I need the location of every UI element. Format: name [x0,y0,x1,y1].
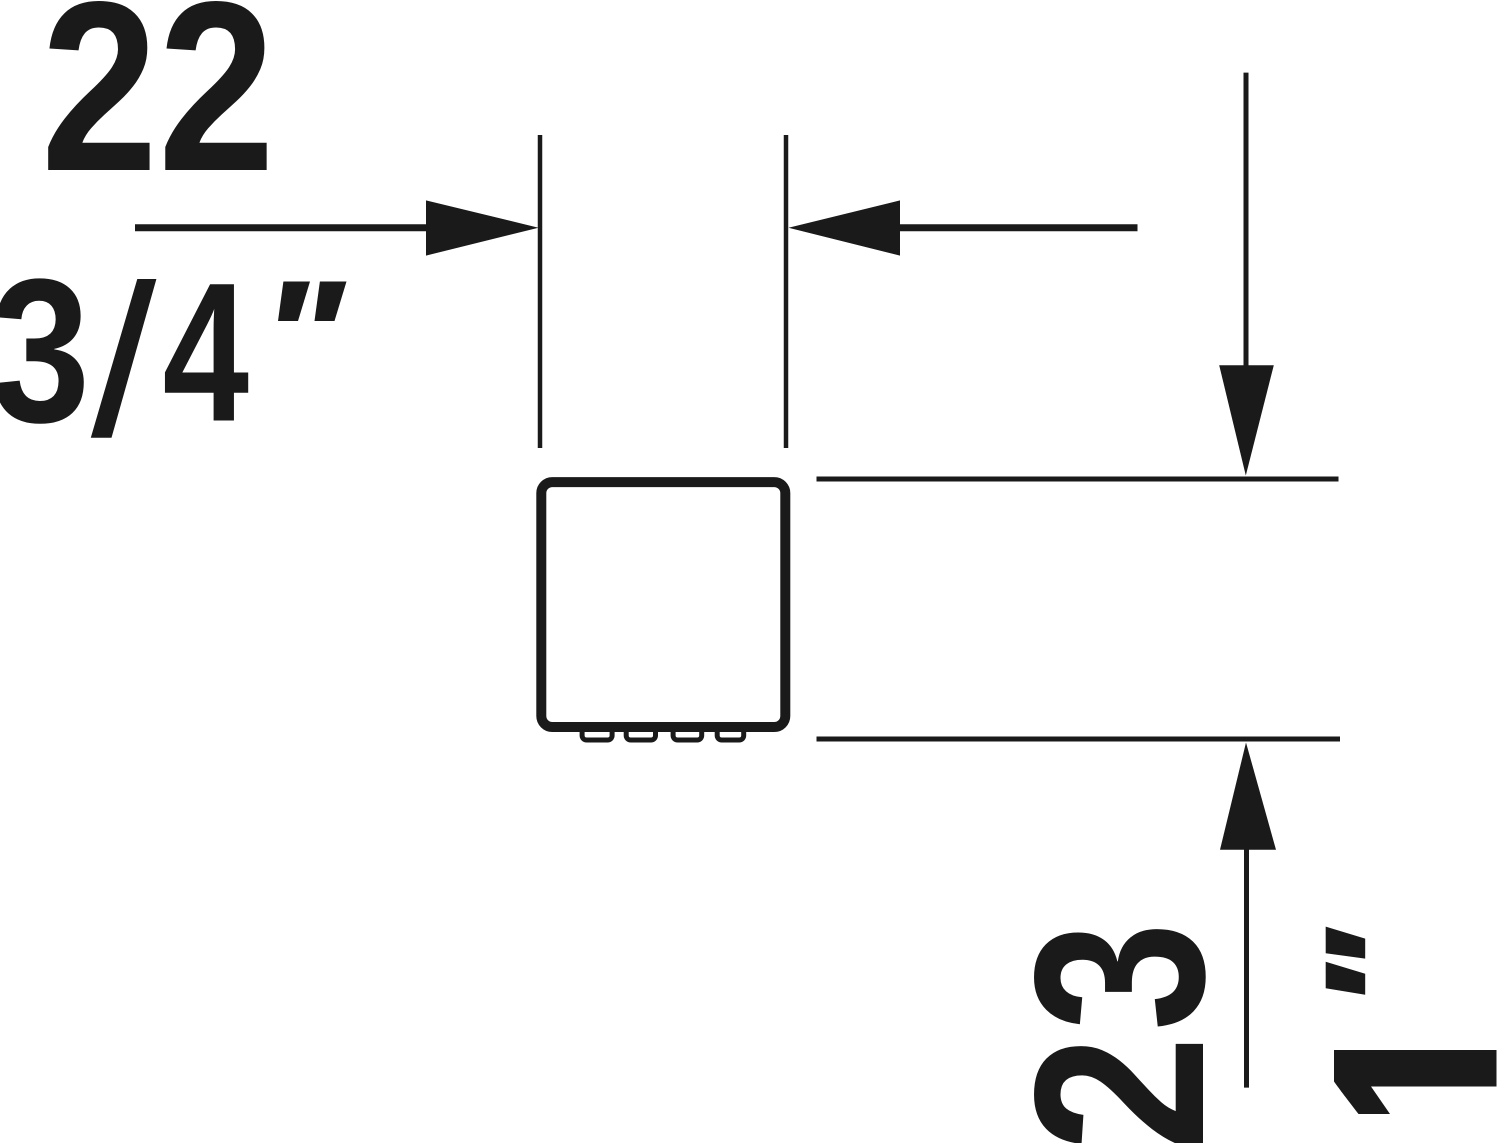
arrowhead down-pointing [1219,365,1274,475]
dimension line right (horizontal, arrow left) [896,224,1138,231]
svg-text:3: 3 [0,236,90,465]
arrowhead up-pointing [1220,743,1276,850]
inch double-prime after 3/4 [278,282,347,322]
svg-text:2: 2 [985,1035,1255,1143]
top reference line (right) [817,477,1339,482]
foot tab 1 [582,725,612,741]
svg-text:4: 4 [163,241,249,462]
product outline square (top view) [541,482,785,727]
svg-text:3: 3 [984,922,1254,1031]
bottom reference line (right) [817,737,1341,742]
arrowhead left-pointing [789,200,901,255]
inch double-prime after rotated 1 [1326,927,1366,995]
fraction slash of 3/4 [91,279,157,438]
svg-text:22: 22 [41,0,275,222]
vertical dimension line (arrow down) [1244,73,1249,368]
up arrow (vertical, arrow up) [1244,846,1249,1088]
extension line right [784,135,789,448]
foot tab 2 [626,725,655,741]
dimension label "1" (rotated, drawn) [1334,1050,1497,1114]
dimension line left (horizontal, arrow right) [135,224,430,231]
foot tab 4 [717,725,744,741]
extension line left [538,135,543,448]
foot tab 3 [673,725,702,741]
arrowhead right-pointing [426,200,539,255]
